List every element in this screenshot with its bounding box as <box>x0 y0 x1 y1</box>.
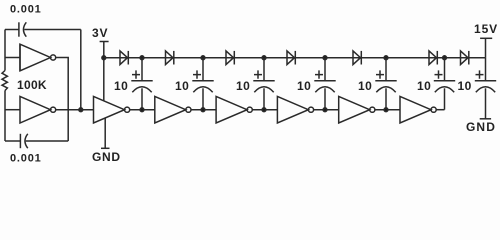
diode D1 <box>120 51 128 65</box>
power terminal 15V <box>480 37 492 39</box>
capacitor C3 10u (stage 1) <box>141 58 143 81</box>
power terminal 3V <box>100 41 109 43</box>
wire: top pump rail <box>104 57 486 59</box>
diode D6 <box>429 51 437 65</box>
op-amp inverter U2f (buffer 6) <box>400 96 431 123</box>
op-amp inverter U2c (buffer 3) <box>216 96 247 123</box>
capacitor C2 0.001 (bottom) <box>19 134 21 148</box>
wire: buffer 2 output <box>191 109 216 111</box>
wire: buffer 4 output <box>314 109 339 111</box>
svg-text:10: 10 <box>297 79 311 93</box>
wire: oscillator bottom wire <box>5 140 20 142</box>
wire: buffer 1 output <box>130 109 155 111</box>
resistor R1 100K <box>2 71 7 91</box>
capacitor C5 10u (stage 3) <box>263 58 265 81</box>
node: rail junction stage 6 <box>443 56 447 60</box>
diode D3 <box>226 51 234 65</box>
ground terminal (right) <box>480 118 491 120</box>
wire: U1a output to feedback drop <box>56 58 68 142</box>
node: chain junction 5 <box>384 108 388 112</box>
svg-text:10: 10 <box>236 79 250 93</box>
svg-text:10: 10 <box>358 79 372 93</box>
node: rail junction stage 1 <box>140 56 144 60</box>
op-amp inverter U2e (buffer 5) <box>339 96 370 123</box>
capacitor C7 10u (stage 5) <box>385 58 387 81</box>
svg-text:15V: 15V <box>474 22 498 36</box>
wire: oscillator left bus upper segment <box>4 30 6 71</box>
capacitor C6 10u (stage 4) <box>324 58 326 81</box>
wire: oscillator top wire right <box>24 29 81 31</box>
node: rail junction stage 2 <box>201 56 205 60</box>
capacitor C9 10u (output) <box>485 58 487 81</box>
svg-text:GND: GND <box>466 120 496 134</box>
diode D5 <box>353 51 361 65</box>
op-amp inverter U2b (buffer 2) <box>155 96 186 123</box>
svg-text:0.001: 0.001 <box>10 4 42 16</box>
wire: 3V supply drop to rail and VCC pin <box>103 42 105 102</box>
wire: buffer 6 output to stage 6 cap <box>436 109 444 111</box>
node: rail junction stage 5 <box>384 56 388 60</box>
wire: oscillator output to first buffer <box>56 109 94 111</box>
op-amp inverter U1a (oscillator top) <box>5 44 20 71</box>
diode D2 <box>166 51 174 65</box>
node: rail junction stage 3 <box>262 56 266 60</box>
svg-text:10: 10 <box>114 79 128 93</box>
wire: oscillator right bus <box>80 30 82 110</box>
op-amp inverter U1b (oscillator bottom) <box>5 109 20 111</box>
svg-text:10: 10 <box>175 79 189 93</box>
node: chain junction 1 <box>140 108 144 112</box>
diode D4 <box>287 51 295 65</box>
capacitor C4 10u (stage 2) <box>202 58 204 81</box>
svg-text:10: 10 <box>417 79 431 93</box>
wire: buffer 3 output <box>252 109 277 111</box>
node: oscillator output junction <box>79 108 83 112</box>
svg-text:100K: 100K <box>17 78 47 92</box>
wire: oscillator left bus lower segment <box>4 91 6 142</box>
capacitor C1 0.001 (top) <box>18 22 20 36</box>
wire: buffer 5 output <box>375 109 400 111</box>
op-amp inverter U2a (buffer 1) <box>94 96 125 123</box>
node: 3V rail junction <box>102 56 106 60</box>
node: chain junction 3 <box>262 108 266 112</box>
svg-text:0.001: 0.001 <box>10 153 42 165</box>
svg-text:3V: 3V <box>92 26 108 40</box>
wire: 15V output riser <box>485 38 487 57</box>
svg-text:10: 10 <box>458 79 472 93</box>
diode D7 <box>461 51 469 65</box>
ground lead from U2a <box>104 118 106 148</box>
node: chain junction 4 <box>323 108 327 112</box>
capacitor C8 10u (stage 6) <box>444 58 446 81</box>
node: rail junction stage 4 <box>323 56 327 60</box>
node: chain junction 2 <box>201 108 205 112</box>
op-amp inverter U2d (buffer 4) <box>277 96 308 123</box>
svg-text:GND: GND <box>92 150 121 164</box>
wire: oscillator top wire left <box>5 29 19 31</box>
